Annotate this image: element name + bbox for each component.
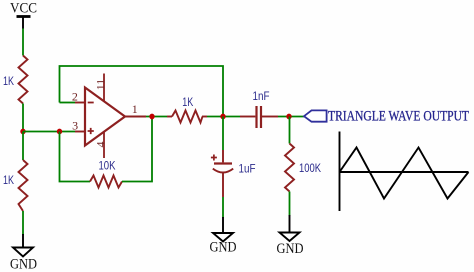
svg-text:1K: 1K xyxy=(3,74,14,88)
wire VCC to R1 xyxy=(22,29,24,56)
wire 1nF to node D xyxy=(278,116,304,118)
node B junction dot xyxy=(57,129,62,135)
op-amp U1 xyxy=(85,88,125,146)
wire node D down to R5 xyxy=(289,117,291,144)
node C junction dot xyxy=(220,114,225,120)
resistor R4 10K horizontal xyxy=(90,176,122,188)
wire 10K up to output node xyxy=(122,117,152,182)
pin 11 stub xyxy=(103,74,105,102)
capacitor C2 1nF horizontal xyxy=(240,106,278,128)
resistor R5 100K vertical xyxy=(285,144,294,192)
resistor R2 1K vertical xyxy=(19,160,28,211)
triangle waveform trace xyxy=(340,148,469,199)
wire node A to pin3 xyxy=(23,131,75,133)
wire pin2 loop (node B up over to node C) xyxy=(60,66,224,117)
svg-text:TRIANGLE WAVE OUTPUT: TRIANGLE WAVE OUTPUT xyxy=(328,109,469,125)
output node junction dot xyxy=(149,114,154,120)
svg-text:100K: 100K xyxy=(299,161,321,175)
node A junction dot xyxy=(20,129,25,135)
svg-text:2: 2 xyxy=(72,90,78,104)
wire node C down to C1 xyxy=(222,117,224,151)
pin 4 stub xyxy=(103,132,105,158)
svg-text:1uF: 1uF xyxy=(239,162,256,176)
waveform vertical axis xyxy=(339,132,341,212)
pin 1 stub xyxy=(125,116,146,118)
svg-text:VCC: VCC xyxy=(10,1,37,17)
wire R3 to node C xyxy=(207,116,240,118)
capacitor C1 1uF electrolytic xyxy=(211,150,233,197)
pin 2 stub xyxy=(75,102,85,104)
ground symbol middle xyxy=(210,233,237,256)
svg-text:10K: 10K xyxy=(99,159,116,173)
node D junction dot xyxy=(286,114,291,120)
svg-text:11: 11 xyxy=(94,79,108,91)
wire feedback node B down to 10K xyxy=(60,132,91,182)
output terminal tag xyxy=(304,110,327,121)
power symbol VCC xyxy=(10,1,37,29)
resistor R1 1K vertical xyxy=(19,56,28,104)
resistor R3 1K horizontal with leads xyxy=(167,111,207,123)
svg-text:1nF: 1nF xyxy=(253,89,270,103)
wire R1 to node A xyxy=(22,104,24,132)
svg-text:1: 1 xyxy=(132,102,138,116)
wire R5 to ground xyxy=(289,192,291,217)
waveform horizontal axis xyxy=(340,171,469,173)
svg-text:GND: GND xyxy=(277,241,304,257)
wire C1 to ground xyxy=(222,197,224,218)
ground symbol right xyxy=(277,233,304,258)
ground symbol left xyxy=(10,248,37,272)
wire to pin 2 xyxy=(60,102,76,104)
wire pin1 to R3 xyxy=(146,116,167,118)
pin 3 stub xyxy=(75,131,85,133)
svg-text:GND: GND xyxy=(210,240,237,256)
svg-text:3: 3 xyxy=(72,119,78,133)
svg-text:GND: GND xyxy=(10,257,37,272)
wire R2 to ground xyxy=(22,211,24,235)
svg-text:1K: 1K xyxy=(182,95,193,109)
svg-text:1K: 1K xyxy=(3,173,14,187)
wire node A to R2 xyxy=(22,132,24,161)
svg-text:4: 4 xyxy=(94,142,108,148)
